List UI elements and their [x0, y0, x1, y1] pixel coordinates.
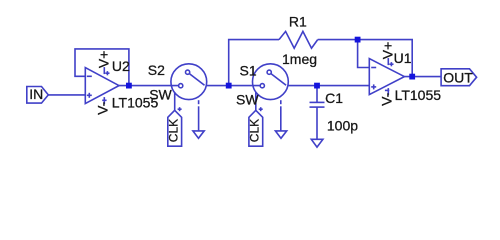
capacitor C1: [310, 86, 325, 140]
switch S1: [253, 64, 289, 131]
port flag CLK of S2: [168, 110, 182, 146]
svg-text:LT1055: LT1055: [395, 87, 442, 103]
port flag IN: [27, 87, 49, 104]
wire S1 to C1 node to U1 plus input: [288, 85, 370, 87]
wire riser junction to R1 left lead: [229, 40, 279, 86]
svg-text:IN: IN: [29, 86, 43, 102]
wire R1 right lead to junction: [318, 39, 358, 41]
node junction S2-S1 / R1 riser: [226, 83, 232, 89]
node junction C1 top: [314, 83, 320, 89]
wire IN to U2 plus input: [48, 94, 85, 96]
wire U1 output to OUT: [404, 76, 441, 78]
switch S2: [171, 64, 207, 131]
svg-text:OUT: OUT: [443, 70, 473, 86]
svg-text:V+: V+: [96, 51, 112, 69]
wire U2 output to junction and S2: [119, 85, 179, 87]
wire U2 feedback loop: [75, 49, 129, 86]
op-amp U2: [85, 67, 119, 104]
node junction U2 output: [126, 83, 132, 89]
svg-text:V-: V-: [378, 92, 394, 106]
wire junction down to U1 minus input: [358, 40, 370, 68]
svg-text:100p: 100p: [327, 117, 358, 133]
resistor R1 zigzag: [279, 31, 318, 48]
svg-text:CLK: CLK: [167, 119, 181, 142]
svg-text:SW: SW: [236, 92, 259, 108]
svg-text:R1: R1: [289, 13, 307, 29]
wire top feedback down to U1 output junction: [358, 40, 413, 77]
ground below C1: [311, 139, 323, 147]
svg-text:S2: S2: [148, 62, 165, 78]
svg-text:S1: S1: [240, 63, 257, 79]
svg-text:SW: SW: [149, 86, 172, 102]
svg-text:1meg: 1meg: [282, 51, 317, 67]
port flag OUT: [441, 69, 477, 86]
svg-text:V-: V-: [94, 101, 110, 115]
svg-text:U2: U2: [112, 58, 130, 74]
node junction U1 output: [409, 74, 415, 80]
wire S2 to junction to S1: [206, 85, 260, 87]
ground below S1: [275, 131, 286, 138]
svg-text:U1: U1: [394, 50, 412, 66]
svg-text:CLK: CLK: [248, 119, 262, 142]
ground below S2: [193, 131, 204, 138]
op-amp U1: [369, 58, 404, 95]
node junction R1 right: [355, 37, 361, 43]
port flag CLK of S1: [249, 110, 263, 146]
svg-text:C1: C1: [325, 90, 343, 106]
svg-text:V+: V+: [379, 42, 395, 60]
